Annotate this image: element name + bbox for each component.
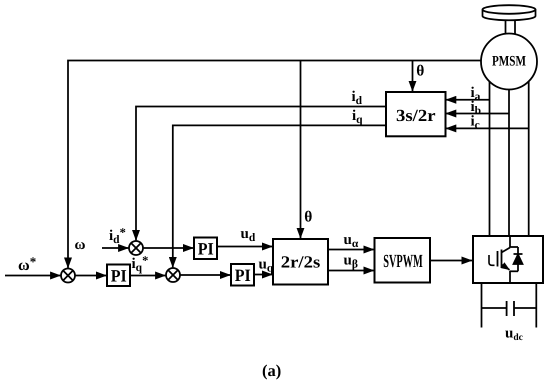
svg-text:uq: uq — [259, 257, 274, 275]
wire theta branch to 3s/2r — [412, 61, 414, 92]
wire phase c vertical — [528, 82, 530, 237]
svg-text:id: id — [352, 89, 363, 107]
svg-text:PI: PI — [111, 266, 127, 285]
wire shaft right — [514, 20, 516, 36]
wire uq: PI3 to 2r/2s — [254, 274, 272, 276]
svg-text:ω*: ω* — [18, 254, 36, 274]
wire ia tap to 3s/2r — [446, 99, 490, 101]
svg-text:3s/2r: 3s/2r — [396, 106, 436, 125]
wire u_beta: 2r/2s to SVPWM — [328, 270, 374, 272]
block PI1 speed regulator — [107, 265, 130, 287]
wire J3 to PI3 — [180, 274, 230, 276]
wire u_alpha: 2r/2s to SVPWM — [328, 249, 374, 251]
wire id feedback from 3s/2r to J2 — [136, 107, 386, 241]
wire J1 to PI1 — [75, 275, 106, 277]
svg-text:PI: PI — [198, 239, 214, 258]
wire phase a vertical — [489, 82, 491, 236]
svg-text:PMSM: PMSM — [492, 54, 526, 70]
summing junction J1 (speed) — [61, 269, 75, 283]
block SVPWM — [375, 238, 431, 283]
wire emitter rail — [510, 270, 518, 272]
diode freewheel — [514, 247, 523, 271]
summing junction J3 (iq) — [166, 268, 180, 282]
wire SVPWM to inverter — [430, 260, 472, 262]
wire ud: PI2 to 2r/2s — [217, 246, 272, 248]
svg-text:θ: θ — [304, 209, 312, 226]
transistor IGBT inside inverter — [489, 248, 510, 270]
wire id* reference input — [102, 247, 129, 249]
wire PI1 to J3 — [130, 275, 166, 277]
svg-text:uα: uα — [344, 232, 359, 250]
block PI3 iq current regulator — [231, 264, 254, 286]
svg-text:id*: id* — [109, 226, 126, 247]
svg-text:iq*: iq* — [132, 254, 149, 275]
block 2r/2s inverse Park transform — [273, 239, 328, 285]
wire J2 to PI2 — [143, 247, 193, 249]
block PI2 id current regulator — [194, 238, 217, 260]
wire sensor line from PMSM to left — [68, 61, 481, 269]
wire ib tap to 3s/2r — [446, 113, 509, 115]
wire phase b vertical — [508, 90, 510, 237]
svg-text:SVPWM: SVPWM — [383, 252, 423, 272]
motor PMSM — [481, 34, 537, 90]
wire dc link left — [481, 283, 483, 328]
wire iq feedback from 3s/2r to J3 — [173, 125, 386, 267]
svg-text:PI: PI — [235, 266, 251, 285]
capacitor u_dc — [482, 301, 537, 316]
wire speed reference input — [5, 275, 61, 277]
svg-text:iq: iq — [352, 108, 363, 126]
svg-text:uβ: uβ — [344, 253, 358, 271]
wire ic tap to 3s/2r — [446, 127, 529, 129]
svg-text:ω: ω — [75, 237, 86, 253]
summing junction J2 (id) — [129, 241, 143, 255]
wire collector rail — [509, 236, 511, 248]
svg-text:ud: ud — [241, 226, 256, 244]
svg-text:2r/2s: 2r/2s — [281, 253, 321, 272]
svg-text:udc: udc — [505, 326, 523, 344]
svg-text:(a): (a) — [262, 361, 281, 380]
block inverter — [473, 236, 543, 283]
svg-text:θ: θ — [416, 63, 424, 80]
wire theta branch to 2r/2s — [300, 61, 302, 239]
block 3s/2r Clarke-Park transform — [386, 92, 446, 136]
motor shaft — [505, 20, 507, 36]
load cylinder on motor shaft — [483, 5, 536, 20]
wire dc link right — [535, 283, 537, 328]
